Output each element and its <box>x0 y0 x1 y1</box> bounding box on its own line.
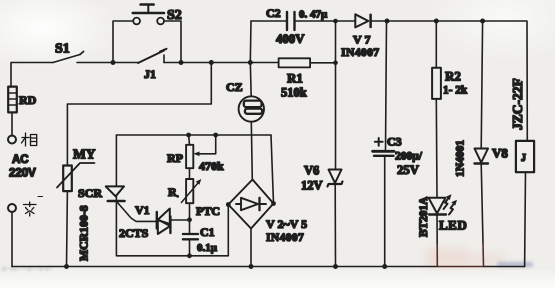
svg-text:C2: C2 <box>266 6 281 20</box>
junction: C1 bottom on trigger bottom wire <box>187 253 192 258</box>
svg-text:JZC-22F: JZC-22F <box>510 78 525 130</box>
svg-text:220V: 220V <box>9 168 36 180</box>
junction: V6 branch on top rail <box>333 19 338 24</box>
diode V7 <box>355 14 370 27</box>
svg-text:J1: J1 <box>144 67 156 81</box>
junction: V8 branch on top rail <box>480 19 485 24</box>
wire: neutral terminal to bottom rail <box>11 212 13 267</box>
pushbutton S2 right branch wire <box>164 21 181 63</box>
svg-text:SCR: SCR <box>78 186 102 200</box>
varistor MY diagonal <box>57 163 95 188</box>
capacitor C2 <box>286 12 288 30</box>
glyph 相 (phase) <box>22 133 37 146</box>
thermistor Rt body <box>186 179 193 203</box>
switch S1 blade <box>53 55 80 63</box>
SCR gate wire <box>117 202 157 221</box>
J1 blade tip hook <box>160 49 167 52</box>
junction: bridge bottom on bottom rail <box>249 264 254 269</box>
varistor MY body <box>63 166 72 192</box>
wire: RD to phase terminal <box>11 112 13 136</box>
svg-text:AC: AC <box>12 154 29 166</box>
junction: R2 branch on top rail <box>434 19 439 24</box>
relay coil J body <box>516 141 534 172</box>
svg-text:S2: S2 <box>167 8 182 23</box>
wire: V8 branch <box>481 21 482 149</box>
junction: C3 on bottom rail <box>382 264 387 269</box>
faint print-through text bottom left <box>2 266 97 274</box>
svg-text:PTC: PTC <box>196 204 220 218</box>
svg-text:S1: S1 <box>55 42 70 57</box>
svg-text:V6: V6 <box>304 164 319 178</box>
wire: C2 to V7 <box>296 20 356 22</box>
bottom rail (neutral) <box>12 266 438 268</box>
junction: diac / C1 / Rt node <box>187 217 192 222</box>
electrolytic capacitor C3 <box>373 150 394 153</box>
junction: S2 right branch on middle rail <box>179 60 184 65</box>
thyristor SCR V1 MCR100-8 <box>106 186 125 201</box>
junction: V6 on bottom rail <box>333 264 338 269</box>
svg-text:V 2~V 5: V 2~V 5 <box>266 217 307 231</box>
junction: bridge left vertex <box>226 202 231 207</box>
svg-text:C1: C1 <box>200 225 215 239</box>
wire: C3 branch <box>386 21 387 151</box>
svg-text:0.1μ: 0.1μ <box>197 242 218 254</box>
relay contact J1 blade <box>138 51 164 64</box>
junction: MY branch on middle rail <box>209 60 214 65</box>
C3 plus sign <box>375 141 383 143</box>
SCR anode wire <box>115 135 117 186</box>
svg-text:1N4001: 1N4001 <box>455 140 467 177</box>
diac V1 2CTS <box>157 209 171 235</box>
svg-text:IN4007: IN4007 <box>341 45 380 59</box>
capacitor C1 <box>183 233 198 235</box>
svg-text:25V: 25V <box>397 163 420 177</box>
wire: C2 branch vertical <box>249 21 252 63</box>
svg-text:RD: RD <box>19 93 37 107</box>
junction: R1 right / V6 branch <box>333 61 338 66</box>
svg-text:LED: LED <box>439 218 467 233</box>
junction: C3 branch on top rail <box>385 19 390 24</box>
resistor R2 <box>432 68 441 99</box>
wire: C3 to bottom rail <box>384 156 386 267</box>
potentiometer RP body <box>186 145 193 168</box>
wire: middle rail left segment from corner to S1 <box>11 63 53 88</box>
svg-text:2CTS: 2CTS <box>119 226 149 240</box>
wire RP to Rt <box>189 168 191 179</box>
wire: MY to bottom rail <box>66 191 69 266</box>
wire: diac to C1 node <box>170 219 189 221</box>
diode V8 1N4001 <box>475 149 489 164</box>
svg-text:BT201A: BT201A <box>418 196 430 237</box>
svg-text:V1: V1 <box>135 203 150 217</box>
svg-text:R.: R. <box>168 185 179 199</box>
wire: relay to bottom rail <box>524 172 527 266</box>
junction: bridge right vertex <box>271 201 276 206</box>
terminal 零 (neutral) <box>8 204 16 212</box>
svg-text:V8: V8 <box>492 146 508 161</box>
svg-text:MCR100-8: MCR100-8 <box>77 205 91 261</box>
wire: V6 branch from top rail down <box>335 21 337 170</box>
junction: MY on bottom rail <box>64 264 69 269</box>
pushbutton S2 actuator <box>133 12 164 15</box>
junction: CZ / C2 branch on middle rail <box>248 60 253 65</box>
wire: R2 branch <box>435 21 437 68</box>
svg-text:12V: 12V <box>301 179 323 193</box>
pink watermark haze bottom right <box>426 248 468 267</box>
pushbutton S2 left branch wire <box>113 21 133 63</box>
svg-text:470k: 470k <box>199 159 224 173</box>
svg-text:1- 2k: 1- 2k <box>443 85 468 97</box>
zener diode V6 <box>328 170 343 187</box>
blue-gray smudge near relay bottom <box>497 262 533 268</box>
bridge rectifier V2~V5 diamond <box>228 180 273 229</box>
trigger top wire <box>116 134 271 136</box>
wire: V7 to relay corner (top rail) <box>371 21 528 141</box>
wire C1 to bottom trigger wire <box>189 239 191 256</box>
wire: V8 to bottom rail <box>481 164 483 244</box>
LED BT201A <box>429 198 447 215</box>
svg-text:510k: 510k <box>281 86 307 100</box>
terminal 相 (phase) <box>8 136 16 144</box>
wire: R2 to LED <box>435 99 438 198</box>
thermistor Rt arrow <box>181 182 199 203</box>
wire: rail S1 to J1 <box>77 62 138 64</box>
svg-text:J: J <box>521 153 526 164</box>
wire: bridge bottom vertex to bottom rail <box>250 229 252 267</box>
wire: CZ to bridge top vertex <box>251 122 252 180</box>
svg-text:0. 47μ: 0. 47μ <box>299 9 328 21</box>
wire: rail J1 to R1 <box>164 62 279 64</box>
svg-text:400V: 400V <box>276 32 305 46</box>
svg-text:R2: R2 <box>445 69 461 84</box>
wire: branch middle rail to varistor MY <box>67 63 211 166</box>
svg-text:R1: R1 <box>287 71 303 86</box>
svg-text:C3: C3 <box>387 135 402 149</box>
wire: bridge right vertex up to trigger top wire <box>271 135 274 204</box>
svg-text:MY: MY <box>73 147 96 162</box>
top rail to C2 <box>251 20 286 22</box>
svg-text:200μ/: 200μ/ <box>395 151 423 163</box>
junction: RP wiper branch on trigger top wire <box>213 133 218 138</box>
wire: CZ branch from rail <box>249 63 252 97</box>
relay contact J1 fixed post <box>163 55 165 63</box>
wire: LED to bottom rail <box>436 215 438 246</box>
svg-text:IN4007: IN4007 <box>266 232 304 244</box>
wire Rt to C1 <box>189 203 191 234</box>
SCR cathode wire down and bottom wire of trigger loop <box>116 196 228 256</box>
junction: RP top on trigger top wire <box>186 133 191 138</box>
wire: rail R1 right to V6 node <box>310 62 335 64</box>
wire: V6 to bottom rail <box>334 184 336 267</box>
RP wiper wire with arrow <box>197 135 216 154</box>
socket CZ <box>239 96 264 121</box>
pushbutton S2 contacts <box>133 18 140 25</box>
svg-text:RP: RP <box>167 151 183 165</box>
glyph 零 (neutral) <box>24 197 43 217</box>
resistor R1 <box>279 58 311 67</box>
svg-text:CZ: CZ <box>226 80 243 94</box>
paper background washes <box>0 0 120 70</box>
junction: S2 left branch on middle rail <box>111 60 116 65</box>
wire: RP branch from trigger top wire <box>188 135 191 145</box>
LED light arrows <box>444 198 450 210</box>
fuse RD <box>8 87 17 113</box>
